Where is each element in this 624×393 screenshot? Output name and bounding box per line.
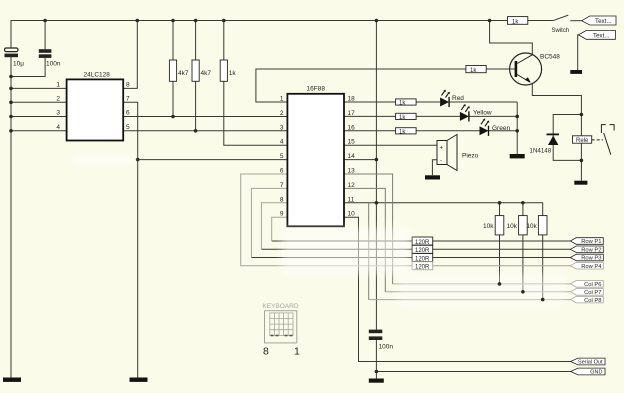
wire Col P7 line from U2 pin12 xyxy=(385,291,570,293)
ground Text flag2 xyxy=(570,70,582,74)
svg-text:GND: GND xyxy=(590,370,602,376)
resistor R3 1k xyxy=(220,60,236,81)
svg-text:-: - xyxy=(440,159,442,165)
switch SW1 blade xyxy=(553,15,569,21)
wire Col P8 line xyxy=(369,299,571,301)
wire GND node to GND flag xyxy=(376,371,570,373)
svg-text:2: 2 xyxy=(56,95,60,102)
node colP7-R10 xyxy=(521,290,525,294)
wire LED common vertical to ground xyxy=(516,102,518,154)
svg-text:Text...: Text... xyxy=(593,32,610,39)
wire relay coil vertical xyxy=(580,115,582,181)
node bus-pin2 xyxy=(9,101,13,105)
wire U2 pin8 to Row P2 xyxy=(261,203,287,250)
node rail-Q1 xyxy=(488,19,492,23)
keyboard symbol xyxy=(262,303,298,343)
wire U2 pin15 to piezo plus xyxy=(344,144,437,146)
svg-text:+: + xyxy=(440,146,444,152)
svg-text:Serial Out: Serial Out xyxy=(578,360,603,366)
svg-text:4: 4 xyxy=(280,139,284,146)
LED D3 Green xyxy=(480,118,511,135)
node rail10k-R9 xyxy=(498,201,502,205)
svg-text:Col P8: Col P8 xyxy=(584,298,601,304)
wire U2 pin12 to Col P7 vertical xyxy=(344,188,385,291)
svg-text:10: 10 xyxy=(348,211,356,218)
node rail10k-R10 xyxy=(521,201,525,205)
wire R1 stem bottom xyxy=(172,81,174,116)
resistor R7 1k base xyxy=(466,66,486,75)
wire rail to R8 xyxy=(490,20,508,22)
wire 10k R11 stem bottom to Col P8 xyxy=(542,235,544,300)
wire 10k R9 stem bottom to Col P6 xyxy=(499,235,501,284)
node led-green xyxy=(515,129,519,133)
resistor R6 1k xyxy=(396,128,417,136)
wire 10k R9 stem top xyxy=(499,203,501,216)
svg-text:9: 9 xyxy=(280,211,284,218)
ground U1 pin7 xyxy=(130,378,148,382)
flag GND xyxy=(571,368,605,376)
flag Text1 xyxy=(582,16,616,25)
svg-text:Rele: Rele xyxy=(576,138,589,144)
svg-text:BC548: BC548 xyxy=(540,54,560,61)
resistor R13 120R xyxy=(412,245,433,254)
ground bus left xyxy=(3,378,21,382)
svg-text:14: 14 xyxy=(348,153,356,160)
flag Row P3 xyxy=(570,254,603,262)
resistor R15 120R gray xyxy=(412,262,433,271)
wire R2 stem top xyxy=(195,21,197,61)
resistor R10 10k xyxy=(507,216,528,235)
svg-text:1k: 1k xyxy=(399,115,406,121)
node gnd-C3 xyxy=(375,370,379,374)
node SDA-R2 xyxy=(194,129,198,133)
resistor R5 1k xyxy=(396,113,417,121)
flag Col P8 gray xyxy=(570,296,603,304)
flag Serial Out xyxy=(571,358,605,366)
wire U2 pin6 to Row P4 xyxy=(241,174,412,266)
svg-text:Row P1: Row P1 xyxy=(581,239,601,245)
svg-text:7: 7 xyxy=(126,95,130,102)
ground piezo xyxy=(425,175,440,179)
wire U2 pin5 to ground vertical xyxy=(138,159,288,161)
svg-text:1N4148: 1N4148 xyxy=(530,148,552,155)
IC U1 24LC128 xyxy=(56,71,130,140)
gray nets xyxy=(241,174,571,300)
wire U2 pin17 to R5 xyxy=(344,115,396,117)
svg-text:1: 1 xyxy=(56,82,60,89)
svg-text:8: 8 xyxy=(280,196,284,203)
svg-text:Piezo: Piezo xyxy=(462,153,479,160)
wire Row P3 line xyxy=(251,257,412,259)
wire switch feed from rail xyxy=(528,20,553,22)
svg-text:16F88: 16F88 xyxy=(307,85,326,92)
wire SDA net U1 pin5 to U2 pin3 xyxy=(123,130,287,132)
wire top +5V rail xyxy=(11,21,553,49)
resistor R8 1k switch xyxy=(508,17,528,26)
node bus-pin1 xyxy=(9,87,13,91)
svg-text:10k: 10k xyxy=(526,223,537,230)
wire U1 pin2 xyxy=(11,101,67,103)
svg-text:5: 5 xyxy=(280,153,284,160)
wire U2 pin13 to Col P6 vertical xyxy=(344,174,393,284)
wire U2 pin7 to Row P3 xyxy=(251,188,287,257)
wire VDD vertical rail to 100n C3 xyxy=(375,21,377,330)
svg-text:1: 1 xyxy=(294,346,300,358)
node relay-bottom xyxy=(580,159,584,163)
wire U1 pin8 to rail xyxy=(123,21,137,89)
wire 100n C2 bottom to bus xyxy=(11,58,45,77)
wire R6 to LED D3 xyxy=(416,130,479,132)
node colP8-R11 xyxy=(541,298,545,302)
capacitor C1 10u xyxy=(5,48,25,68)
node rail-U1pin8 xyxy=(136,19,140,23)
wire 10k R10 stem top xyxy=(522,203,524,216)
wire Row P4 to flag xyxy=(433,265,571,267)
wire R3 stem top xyxy=(223,21,225,61)
wire Q1 collector to rail xyxy=(490,21,533,55)
node VDD-pin11rail xyxy=(375,201,379,205)
svg-text:15: 15 xyxy=(348,139,356,146)
node VDD-pin14 xyxy=(375,158,379,162)
svg-text:Text...: Text... xyxy=(595,18,612,25)
svg-text:8: 8 xyxy=(126,82,130,89)
LED D2 Yellow xyxy=(460,104,492,122)
wire Q1 emitter to relay top xyxy=(532,84,581,115)
node bus-caps xyxy=(9,75,13,79)
node rail-VDD xyxy=(375,19,379,23)
wire piezo minus to ground xyxy=(432,160,437,176)
node led-yellow xyxy=(515,115,519,119)
node rail-C2 xyxy=(43,19,47,23)
svg-text:4k7: 4k7 xyxy=(178,70,189,77)
svg-text:17: 17 xyxy=(348,110,356,117)
wire Text flag2 to ground xyxy=(577,35,580,70)
svg-text:11: 11 xyxy=(348,196,355,203)
ground LED common xyxy=(510,154,525,158)
wire Row P2 line xyxy=(261,248,412,250)
wire U1 pin4 xyxy=(11,130,67,132)
svg-text:6: 6 xyxy=(280,168,284,175)
flag Col P7 gray xyxy=(570,289,603,297)
wire Row P1 line xyxy=(272,240,412,242)
svg-text:Red: Red xyxy=(452,95,464,102)
svg-text:10k: 10k xyxy=(507,223,518,230)
wire U1 pin3 xyxy=(11,116,67,118)
node bus-pin4 xyxy=(9,129,13,133)
svg-text:10k: 10k xyxy=(483,223,494,230)
svg-text:4k7: 4k7 xyxy=(201,70,212,77)
wire U2 pin18 to R4 xyxy=(344,101,396,103)
transistor Q1 BC548 xyxy=(510,53,561,85)
svg-text:Switch: Switch xyxy=(552,28,570,34)
resistor R11 10k xyxy=(526,216,547,235)
node gnd-pin5 xyxy=(136,158,140,162)
svg-text:Row P4: Row P4 xyxy=(581,264,602,270)
svg-text:5: 5 xyxy=(126,124,130,131)
resistor R2 4k7 xyxy=(192,60,211,81)
flag Row P2 xyxy=(570,246,603,254)
wire SCL net U1 pin6 to U2 pin2 xyxy=(123,116,287,118)
wire switch to Text flag1 xyxy=(570,20,581,22)
IC U2 16F88 xyxy=(280,85,355,226)
relay K1 xyxy=(573,125,615,155)
wire Row P1 to flag xyxy=(433,240,571,242)
svg-text:6: 6 xyxy=(126,110,130,117)
resistor R4 1k xyxy=(396,99,417,107)
watermark wash 1 xyxy=(282,228,410,274)
node rail-R1 xyxy=(171,19,175,23)
ground C3 xyxy=(369,379,384,383)
wire R4 to LED D1 xyxy=(416,101,440,103)
svg-text:Col P6: Col P6 xyxy=(584,282,601,288)
wire Row P2 to flag xyxy=(433,248,571,250)
resistor R12 120R xyxy=(412,237,433,246)
svg-text:18: 18 xyxy=(348,96,356,103)
svg-text:8: 8 xyxy=(263,346,269,358)
svg-text:Yellow: Yellow xyxy=(473,109,492,116)
wire R5 to LED D2 xyxy=(416,115,460,117)
wire U1 pin1 xyxy=(11,87,67,89)
flag Row P4 gray xyxy=(570,262,603,270)
svg-text:120R: 120R xyxy=(415,265,430,271)
svg-text:1: 1 xyxy=(280,96,284,103)
svg-text:16: 16 xyxy=(348,124,356,131)
wire U2 pin11 to 10k rail xyxy=(344,203,543,216)
svg-text:Row P3: Row P3 xyxy=(581,256,601,262)
flag Row P1 xyxy=(570,238,603,246)
node relay-top xyxy=(580,113,584,117)
svg-text:Green: Green xyxy=(492,125,510,132)
svg-text:4: 4 xyxy=(56,124,60,131)
svg-text:1k: 1k xyxy=(229,70,237,77)
wire R7 to Q1 base xyxy=(486,68,514,70)
wire U2 pin10 to Serial Out xyxy=(344,217,571,361)
node rail-R3 xyxy=(222,19,226,23)
LED D1 Red xyxy=(440,90,464,108)
piezo LS1 xyxy=(437,135,479,171)
svg-text:3: 3 xyxy=(56,110,60,117)
capacitor C2 100n xyxy=(39,49,61,67)
diode D4 1N4148 xyxy=(530,134,560,154)
flag Col P6 gray xyxy=(570,281,603,289)
node colP6-R9 xyxy=(498,282,502,286)
node rail-R2 xyxy=(194,19,198,23)
wire R3 bottom to U2 pin4 xyxy=(224,81,288,145)
wire 10k R10 stem bottom to Col P7 xyxy=(522,235,524,292)
svg-text:13: 13 xyxy=(348,168,356,175)
flag Text2 xyxy=(578,30,615,39)
resistor R9 10k xyxy=(483,216,504,235)
svg-text:10µ: 10µ xyxy=(13,61,24,68)
svg-text:1k: 1k xyxy=(470,68,477,74)
wire Col P8 branch vertical xyxy=(368,203,370,300)
wire R2 stem bottom xyxy=(195,81,197,131)
svg-text:Row P2: Row P2 xyxy=(581,248,601,254)
svg-text:3: 3 xyxy=(280,124,284,131)
wire C3 bottom to gnd node xyxy=(375,340,377,379)
svg-text:100n: 100n xyxy=(46,61,61,68)
wire diode D4 branch xyxy=(553,115,581,161)
svg-text:24LC128: 24LC128 xyxy=(84,71,111,78)
svg-text:1k: 1k xyxy=(512,19,519,25)
wire U2 pin16 to R6 xyxy=(344,130,396,132)
svg-text:100n: 100n xyxy=(379,344,394,351)
resistor R14 120R xyxy=(412,254,433,263)
ground relay xyxy=(574,181,587,185)
wire Col P6 line from U2 pin13 xyxy=(393,283,571,285)
svg-text:1k: 1k xyxy=(399,130,406,136)
watermark wash 3 xyxy=(75,154,133,165)
wire U2 pin9 to Row P1 xyxy=(272,217,288,241)
svg-text:Col P7: Col P7 xyxy=(584,290,601,296)
svg-text:12: 12 xyxy=(348,182,356,189)
node bus-pin3 xyxy=(9,115,13,119)
svg-text:1k: 1k xyxy=(399,101,406,107)
watermark wash 2 xyxy=(398,274,566,305)
svg-text:2: 2 xyxy=(280,110,284,117)
svg-text:KEYBOARD: KEYBOARD xyxy=(262,303,298,310)
wire D2 to LED common xyxy=(469,115,517,117)
wire Row P3 to flag xyxy=(433,257,571,259)
capacitor C3 100n xyxy=(369,330,394,351)
wire U2 pin1 to R7 base resistor xyxy=(256,69,466,102)
wire 100n C2 top xyxy=(44,21,46,50)
wire R1 stem top xyxy=(172,21,174,61)
wire left ground bus xyxy=(10,57,12,378)
wire D1 to LED common xyxy=(449,101,517,103)
svg-text:7: 7 xyxy=(280,182,284,189)
resistor R1 4k7 xyxy=(169,60,188,81)
wire D3 to LED common xyxy=(489,130,518,132)
wire U2 pin14 VDD xyxy=(344,159,376,161)
wire U1 pin7 to ground xyxy=(123,102,138,377)
node SCL-R1 xyxy=(171,115,175,119)
